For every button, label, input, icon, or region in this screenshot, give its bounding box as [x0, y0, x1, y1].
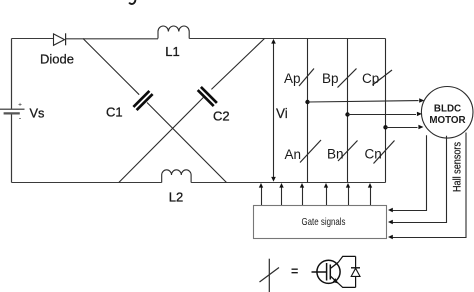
svg-text:Cp: Cp	[362, 71, 379, 86]
svg-text:+: +	[18, 102, 22, 109]
svg-text:=: =	[291, 265, 298, 279]
wire hall sensor line 1	[388, 135, 427, 212]
arrow gate signal 6	[368, 183, 372, 205]
svg-text:Bn: Bn	[327, 147, 344, 162]
wire legend collector link	[338, 256, 355, 262]
arrow gate signal 3	[300, 183, 304, 205]
wire hall sensor line 3	[388, 133, 466, 240]
diode D	[54, 33, 66, 45]
svg-text:-: -	[19, 114, 22, 123]
svg-text:L2: L2	[169, 190, 183, 205]
legend switch symbol	[260, 259, 280, 292]
arrow gate signal 5	[346, 183, 350, 205]
wire phase A to motor	[308, 98, 425, 102]
svg-text:C2: C2	[213, 109, 230, 124]
inductor L2	[162, 170, 191, 183]
capacitor C2	[198, 87, 217, 106]
svg-text:Diode: Diode	[40, 52, 74, 67]
svg-text:L1: L1	[165, 44, 179, 59]
node phase B junction	[345, 112, 349, 116]
switch Ap slash	[299, 69, 314, 87]
wire leg B	[347, 39, 349, 183]
motor BLDC circle	[421, 87, 473, 139]
wire phase C to motor	[386, 125, 424, 129]
transistor IGBT legend	[312, 260, 341, 283]
svg-text:C1: C1	[106, 105, 123, 120]
cropped caption mark	[130, 0, 136, 4]
svg-text:MOTOR: MOTOR	[429, 115, 465, 126]
wire top bus left segment	[12, 38, 54, 40]
svg-text:Cn: Cn	[365, 147, 382, 162]
inductor L1	[158, 26, 189, 38]
battery Vs	[0, 102, 25, 123]
switch Bn slash	[338, 141, 358, 162]
wire phase B to motor	[348, 112, 423, 116]
wire left vertical (source branch)	[11, 39, 13, 183]
switch Cn slash	[374, 141, 395, 164]
svg-text:BLDC: BLDC	[434, 104, 461, 115]
svg-text:Vi: Vi	[276, 106, 288, 121]
arrow Vi measurement (double headed)	[271, 39, 276, 182]
svg-text:Vs: Vs	[30, 106, 45, 121]
wire top bus right segment	[189, 38, 385, 40]
switch An slash	[300, 140, 321, 163]
wire legend emitter link	[338, 283, 355, 287]
capacitor C1	[133, 91, 152, 110]
label BLDC MOTOR	[429, 104, 465, 127]
arrow gate signal 4	[324, 183, 328, 205]
svg-text:Gate signals: Gate signals	[302, 217, 346, 228]
switch Bp slash	[338, 69, 357, 88]
wire top bus middle segment	[66, 38, 158, 40]
svg-text:An: An	[285, 147, 302, 162]
arrow gate signal 2	[279, 183, 283, 205]
wire hall sensor line 2	[388, 136, 447, 224]
wire leg C	[385, 39, 387, 183]
node phase A junction	[305, 100, 309, 104]
box Gate signals	[254, 206, 387, 239]
wire bottom bus left segment	[12, 182, 162, 184]
wire bottom bus right segment	[191, 182, 385, 184]
wire diagonal with C2 (lower-left to upper-right)	[119, 39, 265, 183]
wire leg A	[307, 39, 309, 183]
diode legend freewheel	[351, 256, 360, 287]
wire diagonal with C1 (upper-left to lower-right)	[83, 39, 227, 183]
svg-text:Hall sensors: Hall sensors	[452, 142, 464, 192]
svg-text:Bp: Bp	[322, 71, 339, 86]
node phase C junction	[383, 125, 387, 129]
switch Cp slash	[373, 70, 393, 85]
svg-text:Ap: Ap	[284, 71, 301, 86]
arrow gate signal 1	[259, 183, 263, 205]
